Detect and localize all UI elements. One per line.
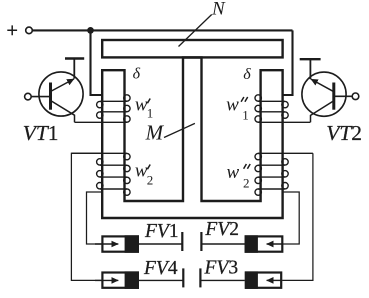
wire (top rail down right side to winding w1'' entry) bbox=[284, 30, 293, 95]
label w1'' bbox=[226, 95, 249, 123]
svg-text:N: N bbox=[211, 0, 226, 19]
armature N (top yoke bar) bbox=[102, 40, 282, 57]
svg-text:VT1: VT1 bbox=[23, 121, 59, 145]
svg-text:FV3: FV3 bbox=[204, 257, 239, 278]
wire (junction down to winding w1' entry) bbox=[91, 30, 102, 95]
chassis bar above VT2 bbox=[300, 58, 321, 60]
arrester FV1 bbox=[95, 232, 182, 253]
label w2'' bbox=[227, 162, 251, 191]
svg-text:VT2: VT2 bbox=[326, 121, 362, 145]
wire (w2' bottom down to FV1) bbox=[87, 192, 102, 244]
wire (w2'' bottom down to FV2) bbox=[283, 192, 300, 244]
svg-text:2: 2 bbox=[243, 176, 250, 191]
transistor VT1 bbox=[31, 72, 83, 122]
transistor VT2 bbox=[302, 72, 352, 122]
wire (leader line from N to armature) bbox=[179, 15, 212, 47]
svg-text:FV2: FV2 bbox=[204, 219, 239, 240]
winding w2'' (right leg lower) bbox=[255, 153, 313, 195]
core M (E-shaped magnetic core) bbox=[102, 58, 282, 219]
arrester FV2 bbox=[201, 232, 283, 253]
wire (leader line from M to center leg) bbox=[164, 123, 195, 137]
wire (w2'' top to outer right rail down to FV3) bbox=[282, 153, 313, 280]
svg-text:2: 2 bbox=[147, 172, 154, 187]
arrester FV3 bbox=[200, 268, 282, 289]
svg-text:δ: δ bbox=[133, 65, 141, 82]
winding w2' (left leg lower) bbox=[71, 153, 130, 195]
wire (+ rail to top right corner) bbox=[32, 29, 292, 31]
svg-text:M: M bbox=[145, 121, 165, 145]
svg-text:w: w bbox=[227, 162, 240, 183]
label w2' bbox=[135, 161, 153, 188]
node (junction dot on + rail) bbox=[87, 27, 94, 34]
terminal (VT2 base, open circle) bbox=[352, 93, 359, 100]
chassis bar above VT1 bbox=[65, 57, 84, 59]
wire (VT2 emitter up to chassis bar) bbox=[309, 59, 311, 79]
svg-text:1: 1 bbox=[242, 107, 249, 122]
wire (VT1 emitter up to chassis bar) bbox=[73, 59, 75, 79]
label + (positive terminal) bbox=[7, 25, 17, 35]
winding w1'' (right leg upper) bbox=[255, 95, 310, 123]
svg-text:FV1: FV1 bbox=[144, 221, 179, 242]
svg-text:w: w bbox=[226, 95, 239, 116]
svg-text:1: 1 bbox=[147, 106, 154, 121]
terminal (VT1 base, open circle) bbox=[25, 93, 32, 100]
winding w1' (left leg upper) bbox=[75, 95, 131, 123]
label w1' bbox=[135, 94, 153, 120]
terminal (top left, open circle) bbox=[26, 27, 33, 34]
svg-text:FV4: FV4 bbox=[143, 258, 178, 279]
arrester FV4 bbox=[95, 268, 183, 289]
wire (w2' top to outer left rail down to FV4) bbox=[71, 153, 101, 280]
svg-text:δ: δ bbox=[243, 66, 251, 83]
